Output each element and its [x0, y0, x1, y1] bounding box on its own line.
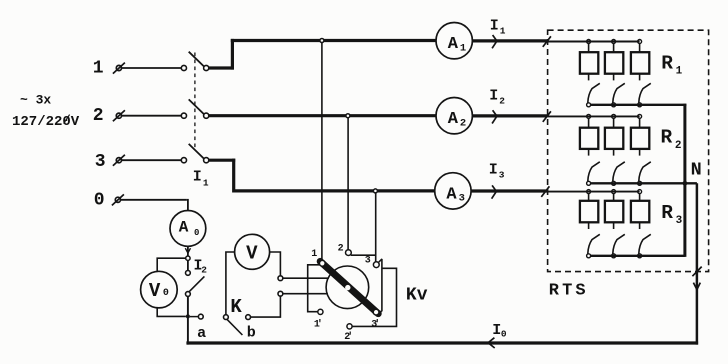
resistor bank R3	[588, 194, 590, 201]
svg-text:3: 3	[676, 215, 683, 227]
terminal neutral input	[115, 197, 120, 202]
svg-text:I: I	[490, 17, 499, 34]
terminal phase 3 input	[116, 158, 121, 163]
RTS entry mark phase3	[541, 186, 549, 197]
terminal b	[246, 315, 251, 320]
node phase1 tap	[320, 39, 324, 43]
terminal a	[198, 314, 203, 319]
svg-text:V: V	[149, 280, 161, 302]
wire phase1 to riser	[209, 66, 234, 69]
wire b to brush bottom	[251, 296, 281, 317]
switch S0	[187, 260, 189, 270]
svg-text:0: 0	[194, 228, 199, 238]
current arrow I2 down	[185, 248, 190, 253]
svg-text:~ 3x: ~ 3x	[20, 93, 51, 108]
node V0 tap	[186, 256, 190, 260]
contact 1p	[318, 309, 323, 314]
N return wire	[696, 183, 699, 344]
wire phase3 to riser	[209, 159, 235, 162]
rail R2	[548, 115, 640, 117]
ammeter A0	[170, 211, 206, 247]
gang linkage dashed	[194, 53, 196, 148]
svg-text:V: V	[246, 242, 258, 264]
svg-text:1: 1	[93, 58, 104, 78]
bottom return wire	[186, 341, 698, 344]
svg-text:127/220V: 127/220V	[12, 114, 80, 130]
svg-text:3: 3	[499, 170, 505, 181]
svg-text:3: 3	[459, 193, 465, 205]
svg-text:3: 3	[365, 256, 371, 267]
svg-text:A: A	[448, 35, 459, 54]
wire V0 bottom	[157, 308, 186, 317]
switch S3 phase3	[181, 158, 186, 163]
node brush top	[278, 276, 283, 281]
wire S0 to bottom return	[187, 296, 189, 344]
ammeter A1	[436, 23, 472, 59]
switch S2 phase2	[181, 113, 186, 118]
contact 3	[373, 262, 379, 268]
node N	[683, 181, 688, 186]
wire link 1 to 1p	[308, 265, 320, 312]
switch blades R3	[588, 234, 600, 253]
bottom rail R1	[591, 104, 687, 106]
current arrow I2	[492, 110, 497, 123]
wire phase3 run	[234, 189, 435, 192]
svg-text:R: R	[661, 127, 673, 149]
switch blades R2	[588, 162, 600, 181]
RTS exit mark	[692, 267, 701, 277]
contact 2	[346, 250, 352, 256]
wire link 3 to 3p	[379, 259, 382, 262]
RTS enclosure dashed	[548, 30, 709, 271]
wire right loop to 2p	[352, 268, 397, 326]
switch K	[224, 315, 229, 320]
svg-text:I: I	[489, 162, 498, 179]
current arrow I3	[492, 185, 497, 198]
current arrow I0	[488, 338, 495, 348]
bottom rail R2	[591, 182, 697, 184]
svg-text:1: 1	[500, 25, 506, 36]
svg-text:A: A	[446, 185, 457, 204]
wire phase3 riser	[232, 159, 235, 193]
wire phase1 riser	[231, 39, 234, 70]
svg-text:2: 2	[675, 140, 682, 152]
RTS entry mark phase1	[543, 36, 551, 47]
rail R1	[548, 41, 640, 43]
terminal phase 2 input	[116, 113, 121, 118]
svg-text:I: I	[489, 87, 498, 104]
wire A2 output	[472, 114, 547, 117]
svg-text:1: 1	[676, 65, 683, 77]
wire A0 down	[187, 246, 189, 256]
node phase3 tap	[373, 189, 377, 193]
wire neutral stub	[121, 199, 187, 201]
wire V0 top	[157, 258, 186, 271]
svg-text:2: 2	[338, 243, 344, 254]
svg-text:R: R	[661, 52, 673, 74]
current arrow N down	[693, 283, 700, 290]
resistor bank R2	[588, 119, 590, 128]
wire A3 output	[471, 189, 547, 192]
selector Kv bar	[320, 261, 378, 313]
terminal phase 1 input	[116, 65, 121, 70]
selector Kv rotor circle	[326, 266, 369, 309]
wire phase 2 stub	[122, 115, 182, 117]
RTS entry mark phase2	[543, 111, 551, 122]
svg-text:I: I	[193, 168, 202, 185]
wire phase 1 stub	[122, 67, 182, 69]
wire phase 3 stub	[122, 159, 182, 161]
svg-text:0: 0	[501, 329, 507, 340]
svg-text:a: a	[197, 325, 206, 342]
wire brush top	[283, 277, 329, 279]
svg-text:1': 1'	[314, 319, 321, 331]
voltmeter V0	[141, 271, 178, 308]
svg-text:2: 2	[201, 265, 207, 276]
svg-text:K: K	[230, 296, 242, 318]
svg-text:N: N	[691, 159, 702, 180]
svg-text:Kv: Kv	[406, 286, 428, 306]
svg-text:3: 3	[95, 152, 106, 172]
switch S1 phase1	[181, 65, 186, 70]
wire V right to brush	[270, 252, 281, 276]
switch blades R1	[588, 83, 600, 102]
svg-text:A: A	[179, 219, 189, 237]
svg-text:0: 0	[163, 288, 169, 299]
wire tap phase3 to Kv	[375, 193, 377, 262]
wire A1 output	[472, 39, 547, 42]
terminal a stub	[190, 316, 199, 318]
contact 1	[319, 260, 325, 266]
svg-text:A: A	[448, 110, 459, 129]
svg-text:3': 3'	[371, 319, 378, 331]
node brush bottom	[278, 291, 283, 296]
wire phase1 top run	[231, 39, 436, 42]
svg-text:1: 1	[460, 42, 466, 54]
svg-text:2: 2	[93, 106, 104, 126]
wire tap phase2 to Kv	[347, 118, 349, 250]
svg-text:2: 2	[499, 95, 505, 106]
svg-text:2': 2'	[344, 331, 351, 343]
current arrow I1	[492, 35, 497, 48]
ammeter A3	[435, 173, 471, 209]
svg-text:0: 0	[94, 191, 105, 211]
wire phase2 run	[209, 114, 436, 117]
wire V left to K	[226, 252, 235, 315]
rotor pivot	[345, 285, 350, 290]
svg-text:R: R	[661, 202, 673, 224]
wire tap phase1 to Kv	[321, 43, 323, 261]
svg-text:RTS: RTS	[549, 282, 589, 301]
junction dot a	[186, 314, 190, 318]
contact 2p	[347, 324, 352, 329]
svg-text:1: 1	[311, 249, 317, 260]
bottom rail R3	[591, 255, 685, 257]
rail R3	[548, 191, 640, 193]
N bus	[683, 104, 686, 257]
ammeter A2	[436, 98, 472, 134]
wire brush bottom	[283, 293, 328, 295]
wire contact2 link	[351, 254, 376, 256]
voltmeter V	[235, 234, 270, 269]
wire to A0	[187, 199, 189, 211]
svg-text:b: b	[247, 324, 256, 341]
resistor bank R1	[588, 44, 590, 53]
svg-text:2: 2	[460, 117, 466, 129]
svg-text:1: 1	[203, 178, 209, 189]
contact 3p	[373, 309, 379, 315]
node phase2 tap	[346, 114, 350, 118]
